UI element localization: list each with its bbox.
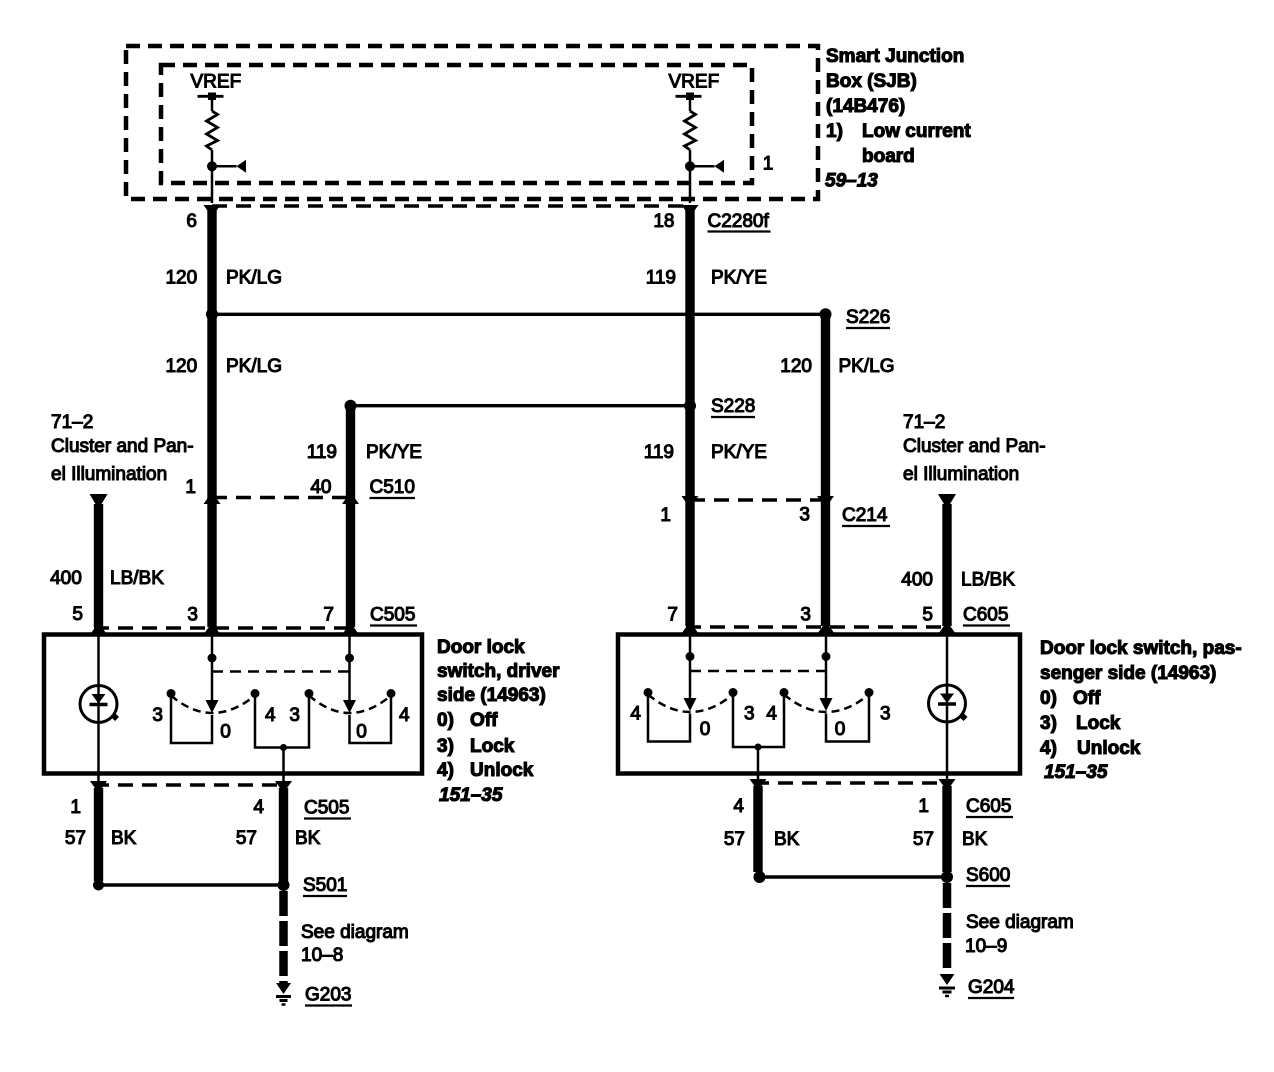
svg-text:120: 120 xyxy=(165,356,197,377)
svg-text:PK/YE: PK/YE xyxy=(711,268,767,289)
svg-text:3: 3 xyxy=(880,704,891,725)
svg-text:VREF: VREF xyxy=(669,72,720,93)
svg-text:C505: C505 xyxy=(304,798,349,819)
svg-text:57: 57 xyxy=(913,829,934,850)
svg-text:BK: BK xyxy=(962,829,988,850)
svg-text:side (14963): side (14963) xyxy=(437,685,546,706)
svg-text:1: 1 xyxy=(660,505,671,526)
svg-text:71–2: 71–2 xyxy=(51,412,93,433)
svg-text:4: 4 xyxy=(630,704,641,725)
svg-text:PK/LG: PK/LG xyxy=(226,356,282,377)
svg-text:(14B476): (14B476) xyxy=(826,96,905,117)
svg-text:57: 57 xyxy=(65,828,86,849)
svg-text:6: 6 xyxy=(186,211,197,232)
svg-text:C505: C505 xyxy=(370,605,415,626)
svg-text:See diagram: See diagram xyxy=(966,912,1074,933)
svg-text:Off: Off xyxy=(1073,688,1101,709)
svg-text:Unlock: Unlock xyxy=(1077,738,1141,759)
svg-text:Door lock: Door lock xyxy=(437,637,525,658)
svg-text:3: 3 xyxy=(152,705,163,726)
svg-text:71–2: 71–2 xyxy=(903,412,945,433)
svg-text:Cluster and Pan-: Cluster and Pan- xyxy=(903,436,1046,457)
svg-text:G204: G204 xyxy=(968,977,1015,998)
svg-text:151–35: 151–35 xyxy=(439,785,503,806)
svg-text:Lock: Lock xyxy=(1076,713,1121,734)
svg-text:S600: S600 xyxy=(966,865,1010,886)
svg-text:400: 400 xyxy=(901,570,933,591)
svg-text:4: 4 xyxy=(399,705,410,726)
svg-text:0: 0 xyxy=(835,719,846,740)
svg-text:0): 0) xyxy=(1040,688,1057,709)
svg-text:119: 119 xyxy=(307,442,337,463)
svg-text:PK/LG: PK/LG xyxy=(839,356,895,377)
svg-text:el Illumination: el Illumination xyxy=(903,464,1019,485)
svg-text:Box (SJB): Box (SJB) xyxy=(826,71,917,92)
svg-text:Off: Off xyxy=(470,710,498,731)
svg-text:0: 0 xyxy=(700,719,711,740)
svg-text:PK/YE: PK/YE xyxy=(711,442,767,463)
svg-text:7: 7 xyxy=(667,605,678,626)
svg-text:BK: BK xyxy=(111,828,137,849)
svg-text:el Illumination: el Illumination xyxy=(51,464,167,485)
svg-text:4: 4 xyxy=(766,704,777,725)
svg-text:G203: G203 xyxy=(305,985,351,1006)
svg-text:57: 57 xyxy=(236,828,257,849)
svg-text:400: 400 xyxy=(50,568,82,589)
svg-text:3: 3 xyxy=(289,705,300,726)
svg-text:119: 119 xyxy=(646,268,676,289)
svg-text:Unlock: Unlock xyxy=(470,760,534,781)
svg-text:151–35: 151–35 xyxy=(1044,762,1108,783)
svg-text:See diagram: See diagram xyxy=(301,922,409,943)
svg-text:119: 119 xyxy=(644,442,674,463)
svg-text:S501: S501 xyxy=(303,875,347,896)
svg-text:Lock: Lock xyxy=(470,736,515,757)
svg-text:1: 1 xyxy=(763,154,774,175)
svg-text:PK/LG: PK/LG xyxy=(226,268,282,289)
svg-text:10–8: 10–8 xyxy=(301,945,343,966)
svg-text:LB/BK: LB/BK xyxy=(110,568,164,589)
svg-text:3: 3 xyxy=(187,605,198,626)
svg-text:4: 4 xyxy=(265,705,276,726)
svg-text:3: 3 xyxy=(800,605,811,626)
svg-text:18: 18 xyxy=(653,211,674,232)
svg-text:0: 0 xyxy=(356,722,367,743)
svg-text:Smart Junction: Smart Junction xyxy=(826,46,964,67)
svg-text:4): 4) xyxy=(437,760,454,781)
svg-text:Door lock switch, pas-: Door lock switch, pas- xyxy=(1040,638,1242,659)
svg-text:VREF: VREF xyxy=(191,72,242,93)
svg-text:S228: S228 xyxy=(711,396,755,417)
svg-text:0: 0 xyxy=(220,722,231,743)
svg-text:5: 5 xyxy=(922,605,933,626)
svg-text:3: 3 xyxy=(799,505,810,526)
svg-text:Cluster and Pan-: Cluster and Pan- xyxy=(51,436,194,457)
svg-text:LB/BK: LB/BK xyxy=(961,570,1015,591)
svg-text:BK: BK xyxy=(295,828,321,849)
svg-text:120: 120 xyxy=(165,268,197,289)
svg-text:senger side (14963): senger side (14963) xyxy=(1040,663,1216,684)
svg-text:1): 1) xyxy=(826,121,843,142)
svg-text:PK/YE: PK/YE xyxy=(366,442,422,463)
svg-text:10–9: 10–9 xyxy=(965,936,1007,957)
svg-text:BK: BK xyxy=(774,829,800,850)
svg-text:C510: C510 xyxy=(370,477,415,498)
svg-text:C605: C605 xyxy=(963,605,1008,626)
svg-text:4: 4 xyxy=(733,796,744,817)
svg-text:40: 40 xyxy=(310,477,331,498)
svg-text:4): 4) xyxy=(1040,738,1057,759)
svg-text:1: 1 xyxy=(918,796,929,817)
svg-text:0): 0) xyxy=(437,710,454,731)
svg-text:59–13: 59–13 xyxy=(825,171,878,192)
svg-text:board: board xyxy=(862,146,915,167)
svg-text:3): 3) xyxy=(1040,713,1057,734)
svg-text:3): 3) xyxy=(437,736,454,757)
svg-text:3: 3 xyxy=(744,704,755,725)
svg-text:57: 57 xyxy=(724,829,745,850)
svg-text:C214: C214 xyxy=(842,505,888,526)
svg-text:switch, driver: switch, driver xyxy=(437,661,560,682)
svg-text:1: 1 xyxy=(70,797,81,818)
svg-text:C605: C605 xyxy=(966,796,1011,817)
svg-text:S226: S226 xyxy=(846,307,890,328)
svg-text:C2280f: C2280f xyxy=(708,211,770,232)
svg-text:5: 5 xyxy=(72,604,83,625)
svg-text:Low current: Low current xyxy=(862,121,971,142)
svg-text:7: 7 xyxy=(323,605,334,626)
svg-text:1: 1 xyxy=(185,477,196,498)
svg-text:120: 120 xyxy=(780,356,812,377)
svg-text:4: 4 xyxy=(253,797,264,818)
